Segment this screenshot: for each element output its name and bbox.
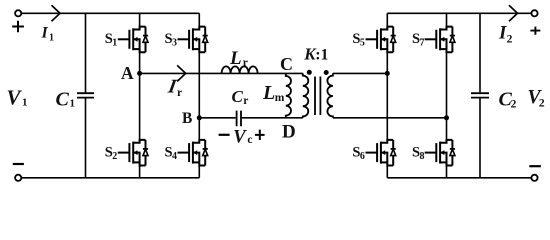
svg-text:m: m [275, 92, 285, 104]
svg-text:A: A [121, 63, 134, 83]
svg-text::1: :1 [315, 46, 328, 63]
svg-text:4: 4 [172, 151, 177, 162]
svg-text:3: 3 [172, 38, 177, 49]
svg-text:r: r [243, 57, 248, 69]
svg-text:D: D [282, 121, 296, 142]
svg-text:2: 2 [507, 33, 513, 45]
svg-text:B: B [182, 110, 192, 127]
svg-text:7: 7 [420, 38, 425, 49]
svg-text:1: 1 [112, 38, 117, 49]
svg-text:V: V [7, 85, 23, 109]
svg-text:2: 2 [112, 151, 117, 162]
svg-text:2: 2 [511, 99, 517, 111]
svg-text:1: 1 [49, 32, 54, 43]
svg-text:1: 1 [70, 98, 76, 110]
svg-text:6: 6 [360, 151, 365, 162]
svg-text:V: V [233, 127, 247, 147]
svg-text:5: 5 [360, 38, 365, 49]
svg-text:L: L [229, 48, 242, 69]
svg-text:c: c [247, 134, 252, 146]
svg-text:8: 8 [420, 151, 425, 162]
svg-text:C: C [56, 88, 70, 110]
svg-text:r: r [243, 95, 248, 107]
svg-text:1: 1 [22, 97, 28, 109]
svg-text:r: r [177, 87, 182, 99]
svg-text:C: C [280, 54, 293, 74]
svg-text:C: C [232, 87, 244, 106]
svg-text:2: 2 [539, 97, 545, 109]
svg-text:I: I [41, 24, 49, 41]
svg-text:L: L [262, 82, 275, 104]
